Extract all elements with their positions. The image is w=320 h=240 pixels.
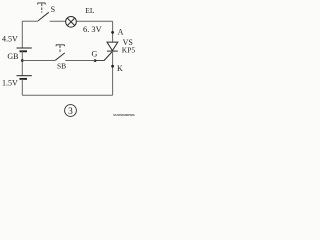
node A [111, 31, 114, 34]
node G dot [94, 59, 97, 62]
wire middle: tap to push button SB [22, 60, 55, 62]
wire top-left: from top-left corner to switch S [22, 20, 38, 22]
wire: SB to node G [65, 60, 95, 62]
svg-text:G: G [92, 49, 98, 58]
push button SB [55, 45, 65, 61]
lamp EL [66, 16, 77, 27]
wire: switch S to lamp EL [50, 20, 66, 22]
battery GB cell 1 positive plate [17, 47, 32, 49]
svg-text:S: S [51, 5, 55, 14]
circled number 3 [65, 105, 77, 117]
node tap dot [21, 59, 24, 62]
battery GB cell 2 positive plate [17, 75, 32, 77]
wire left bottom: cell2 to bottom-left corner [21, 79, 23, 95]
wire left: top corner down to battery cell 1 [21, 21, 23, 48]
thyristor VS KP5 [104, 42, 118, 60]
svg-text:A: A [118, 27, 124, 36]
wire: lamp to top-right corner [76, 20, 112, 22]
svg-text:KP5: KP5 [122, 46, 136, 55]
wire right upper: corner down to thyristor anode [112, 21, 114, 42]
wire left middle: cell1 to cell2 through tap [21, 51, 23, 75]
svg-text:1.5V: 1.5V [2, 79, 18, 88]
svg-text:6. 3V: 6. 3V [83, 25, 102, 34]
svg-text:4.5V: 4.5V [2, 34, 18, 43]
switch S [38, 3, 49, 21]
svg-text:xa xexsxnxexax: xa xexsxnxexax [113, 112, 135, 117]
svg-text:3: 3 [68, 107, 73, 117]
battery GB cell 1 negative plate [20, 50, 28, 52]
svg-text:GB: GB [7, 52, 18, 61]
svg-text:SB: SB [57, 61, 66, 70]
svg-text:EL: EL [85, 6, 95, 15]
wire right lower: cathode down to bottom-right corner [112, 51, 114, 95]
wire bottom [22, 94, 112, 96]
svg-text:K: K [117, 64, 123, 73]
battery GB cell 2 negative plate [20, 78, 28, 80]
node K dot [111, 65, 114, 68]
wire gate: G dot to thyristor gate [95, 60, 105, 62]
